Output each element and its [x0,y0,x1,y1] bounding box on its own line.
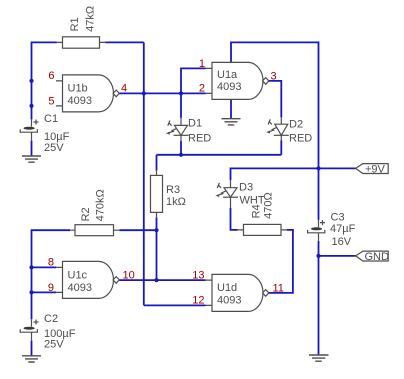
svg-text:3: 3 [271,70,277,82]
wire U1a pin3 output to D2 anode [269,81,282,118]
svg-text:R2: R2 [80,207,92,221]
op-amp U1b (NAND gate 4093) [56,75,119,112]
svg-text:U1c: U1c [68,269,88,281]
pin 3 label [271,70,277,82]
resistor R2 [70,189,120,235]
svg-text:D3: D3 [239,181,253,193]
svg-text:13: 13 [192,269,204,281]
wire GND branch [319,255,356,257]
pin 8 label [48,256,54,268]
node +9V power tag [356,163,389,175]
pin 12 label [192,294,204,306]
svg-text:9: 9 [48,282,54,294]
svg-text:25V: 25V [44,142,64,154]
pin 4 label [121,82,127,94]
svg-text:WHT: WHT [240,194,265,206]
diode D3 (LED WHT) [215,180,265,208]
wire U1c pin 8 [32,266,57,268]
svg-text:11: 11 [273,282,284,294]
op-amp U1c (NAND gate 4093) [56,261,119,298]
junction pin6/left rail [29,79,33,83]
junction R3/pin10 node [154,278,158,282]
junction pin9/left rail [29,290,33,294]
wire D1 cathode down [180,141,182,155]
svg-text:12: 12 [192,294,204,306]
wire U1c pin10 output to U1d pin13 [119,279,205,281]
junction R2/R3 node [154,228,158,232]
svg-text:U1a: U1a [217,69,238,81]
svg-text:+9V: +9V [365,163,386,175]
svg-text:6: 6 [48,70,54,82]
wire C2 bottom to ground [31,341,33,356]
pin 6 label [48,70,54,82]
svg-text:R3: R3 [166,184,180,196]
wire R2 left / left rail bottom [32,230,71,319]
svg-text:4: 4 [121,82,127,94]
resistor R3 [151,170,186,217]
svg-text:U1d: U1d [217,282,237,294]
wire R3 bottom to pin10 node [156,217,158,280]
wire R1 right to vertical rail [106,41,144,43]
resistor R4 [238,192,288,235]
op-amp U1d (NAND gate 4093) [206,274,269,311]
svg-text:R4: R4 [251,204,263,218]
ground (bottom right rail) [309,355,329,361]
resistor R1 [57,6,106,48]
wire U1a power pin top loop to +9V rail [231,42,319,220]
svg-text:1kΩ: 1kΩ [166,196,186,208]
wire U1a ground pin stub [230,99,232,118]
pin 5 label [48,95,54,107]
wire R1 left / left rail top [32,42,57,119]
svg-text:4093: 4093 [217,295,241,307]
wire R4 right loop to U1d pin11 output [269,230,293,293]
svg-text:GND: GND [365,251,390,263]
junction +9V rail [316,166,320,170]
wire U1c pin 9 [32,291,57,293]
svg-text:U1b: U1b [68,82,88,94]
junction D1 cathode / LED rail [179,153,183,157]
wire to U1d pin 12 [144,304,206,306]
op-amp U1a (NAND gate 4093) [206,62,269,99]
wire R2 right [120,229,157,231]
svg-text:RED: RED [289,133,312,145]
wire D3 cathode to R4 left [231,208,238,230]
junction R1/pin4 node [142,91,146,95]
pin 9 label [48,282,54,294]
wire U1a pin1 branch [181,68,206,118]
junction pin8/left rail [29,265,33,269]
pin 13 label [192,269,204,281]
capacitor C3 [308,211,356,248]
svg-text:47kΩ: 47kΩ [85,6,97,32]
wire R3 top [156,155,158,171]
ground (under C2) [22,356,41,362]
svg-text:470kΩ: 470kΩ [95,189,107,221]
svg-text:C3: C3 [331,211,345,223]
pin 10 label [123,269,135,281]
svg-text:47µF: 47µF [330,223,356,235]
svg-text:C2: C2 [44,313,58,325]
capacitor C2 [20,313,75,351]
ground (under U1a pin 7) [222,119,241,125]
svg-text:2: 2 [199,82,205,94]
svg-text:8: 8 [48,256,54,268]
diode D1 (LED RED) [166,118,211,145]
capacitor C1 [20,113,69,154]
svg-text:4093: 4093 [68,95,92,107]
wire D2 cathode down [280,140,282,154]
wire C1 bottom to ground [31,141,33,156]
svg-text:D2: D2 [289,118,303,130]
junction GND rail [316,254,320,258]
pin 2 label [199,82,205,94]
svg-text:4093: 4093 [217,81,241,93]
junction pin5/left rail [29,104,33,108]
svg-text:D1: D1 [188,118,202,130]
svg-text:1: 1 [199,58,205,70]
wire +9V branch to D3 anode [231,168,356,180]
ground (under C1) [22,156,41,162]
svg-text:RED: RED [188,132,211,144]
junction D1 anode node [179,91,183,95]
svg-text:16V: 16V [332,236,352,248]
svg-text:C1: C1 [44,113,58,125]
svg-text:25V: 25V [44,338,64,350]
wire LED bottom rail [157,154,282,156]
svg-text:R1: R1 [69,17,81,31]
diode D2 (LED RED) [266,117,312,144]
pin 11 label [273,282,284,294]
wire C3 bottom rail to ground [318,241,320,355]
wire U1b pin4 output to U1a pin2 [119,92,205,94]
svg-text:10: 10 [123,269,135,281]
wire vertical rail x=143.5 (R1/pin4 node down to pin12) [143,42,145,305]
svg-text:4093: 4093 [68,282,92,294]
svg-text:5: 5 [48,95,54,107]
node GND power tag [356,251,389,263]
pin 1 label [199,58,205,70]
